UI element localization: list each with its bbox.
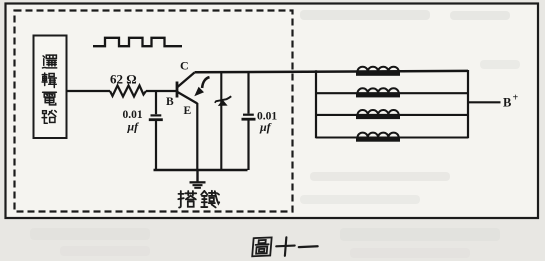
svg-text:E: E	[184, 105, 192, 117]
svg-text:+: +	[513, 93, 519, 104]
svg-text:μf: μf	[259, 120, 272, 134]
svg-text:B: B	[166, 96, 174, 108]
svg-text:μf: μf	[127, 120, 140, 134]
svg-text:62 Ω: 62 Ω	[110, 72, 137, 87]
svg-text:B: B	[503, 96, 511, 110]
svg-text:C: C	[180, 59, 189, 73]
